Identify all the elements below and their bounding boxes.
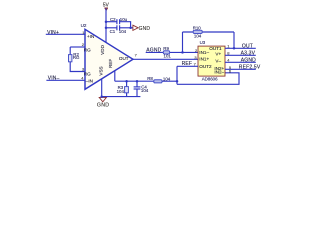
svg-text:104: 104	[163, 76, 171, 81]
svg-text:OUT1: OUT1	[209, 46, 222, 51]
wire pin1 OUT	[225, 47, 256, 49]
wire R8 to OUT2 net	[162, 80, 177, 82]
wire C2 branch right	[120, 22, 131, 28]
capacitor C4	[134, 81, 149, 96]
capacitor C2	[110, 17, 128, 24]
capacitor C1	[110, 25, 127, 34]
wire REF pin down	[114, 71, 116, 82]
svg-text:OUT2: OUT2	[199, 64, 212, 69]
resistor R9	[163, 46, 171, 58]
wire VIN- to pin 4	[46, 79, 85, 81]
op-amp U3 AD8606 box	[198, 40, 225, 81]
svg-text:104: 104	[141, 88, 149, 93]
svg-text:RG: RG	[73, 55, 80, 60]
wire R10 down to OUT node	[233, 32, 235, 48]
node junction R3 tap	[125, 80, 128, 83]
node junction feedback/AGND	[181, 51, 184, 54]
node junction caps common	[129, 27, 132, 30]
svg-text:R8: R8	[147, 76, 153, 81]
wire U2 OUT to U3 +IN1	[133, 58, 198, 60]
node junction OUT/R10	[233, 47, 236, 50]
node junction C2 tap	[105, 20, 108, 23]
svg-text:RG: RG	[84, 71, 91, 76]
power 5V	[103, 3, 110, 11]
svg-text:REF2.5V: REF2.5V	[239, 65, 261, 71]
svg-text:U3: U3	[200, 40, 206, 45]
svg-text:GND: GND	[97, 103, 109, 109]
svg-text:101: 101	[164, 53, 172, 58]
wire pin7 stub	[177, 65, 198, 67]
svg-text:VIN+: VIN+	[47, 30, 59, 36]
svg-text:104: 104	[194, 34, 202, 39]
svg-text:OUT: OUT	[119, 56, 129, 61]
wire pin5 REF2.5V	[225, 68, 256, 70]
svg-text:OUT: OUT	[242, 43, 253, 49]
op-amp U2 in-amp triangle	[81, 23, 133, 89]
ground GND arrow port top	[133, 25, 151, 32]
svg-text:VDD: VDD	[100, 44, 105, 54]
node junction gnd rail	[100, 95, 103, 98]
wire pin4 AGND	[225, 61, 256, 63]
node junction C1 tap	[105, 27, 108, 30]
svg-text:V+: V+	[215, 52, 221, 57]
svg-text:–IN: –IN	[86, 78, 93, 83]
ground GND port bottom	[97, 97, 109, 108]
svg-text:U2: U2	[81, 23, 87, 28]
svg-text:IN2–: IN2–	[214, 69, 224, 74]
svg-text:VSS: VSS	[98, 66, 103, 75]
wire ground rail	[102, 96, 141, 98]
wire pin8 A3.3V	[225, 54, 256, 56]
svg-text:R10: R10	[193, 26, 202, 31]
wire C1 branch right to GND port	[120, 27, 133, 29]
svg-text:R9: R9	[163, 46, 169, 51]
wire 5V rail down to U2 VDD	[105, 8, 107, 42]
wire REF row	[115, 80, 154, 82]
svg-text:AGND: AGND	[241, 58, 256, 64]
wire feedback up	[182, 32, 184, 52]
wire pin2 down to R2	[69, 47, 71, 55]
resistor R8	[147, 76, 171, 83]
svg-text:104: 104	[119, 29, 127, 34]
svg-text:RG: RG	[84, 47, 91, 52]
svg-text:IN1+: IN1+	[199, 57, 209, 62]
svg-text:104: 104	[117, 89, 125, 94]
wire R3 top lead	[126, 81, 128, 86]
svg-text:+IN: +IN	[87, 34, 94, 39]
svg-text:V–: V–	[215, 59, 221, 64]
wire R10 row	[183, 31, 235, 33]
resistor R2 (RG)	[69, 52, 81, 62]
pin 2 RG	[70, 46, 85, 48]
svg-text:AD8606: AD8606	[202, 77, 218, 82]
wire C2 branch left	[106, 21, 117, 23]
wire C1 branch left	[106, 27, 117, 29]
wire OUT2 vertical	[176, 66, 178, 84]
svg-text:REF: REF	[108, 59, 113, 68]
wire R2 down to pin 3	[70, 62, 85, 72]
svg-text:IN1–: IN1–	[199, 50, 209, 55]
wire AGND stub	[146, 51, 198, 53]
wire feedback loop bottom	[177, 73, 239, 85]
svg-text:C1: C1	[110, 29, 116, 34]
wire VIN+ to pin 1	[46, 33, 85, 35]
svg-text:GND: GND	[139, 26, 151, 32]
wire R3 bottom lead	[126, 93, 128, 97]
svg-text:A3.3V: A3.3V	[241, 50, 256, 56]
node junction R8/OUT2	[176, 80, 179, 83]
resistor R10	[193, 26, 203, 39]
svg-text:C2: C2	[110, 17, 116, 22]
node junction C4 tap	[136, 80, 139, 83]
wire VSS down to ground	[101, 79, 103, 98]
resistor R3	[117, 85, 129, 94]
